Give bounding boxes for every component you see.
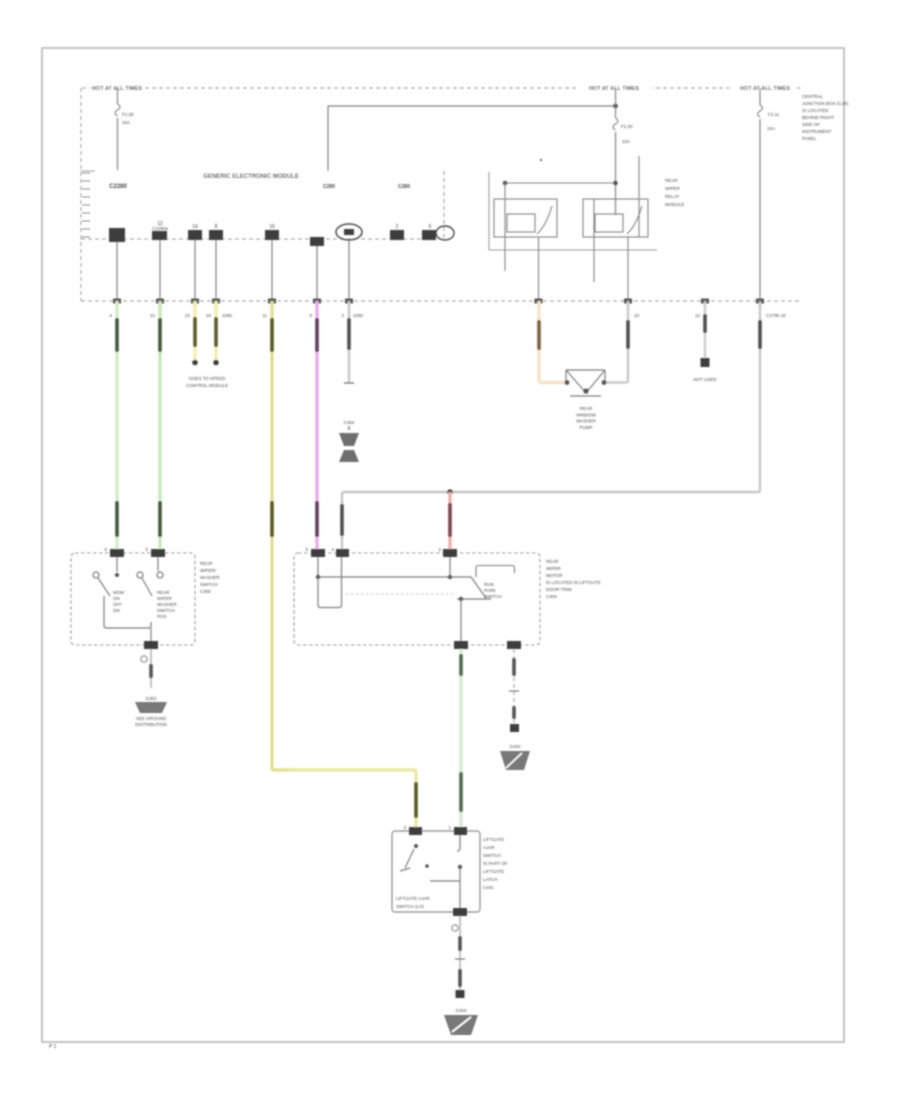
wire GEM output to relay (horizontal) <box>328 105 615 107</box>
liftgate pin out <box>453 908 467 916</box>
svg-text:WIPER: WIPER <box>157 596 173 601</box>
rear wiper washer switch box (dashed) <box>71 553 195 645</box>
svg-text:IS LOCATED: IS LOCATED <box>802 108 829 113</box>
svg-text:9: 9 <box>309 313 312 318</box>
SECTION: lower components <box>71 370 606 1035</box>
wire W10 GRAY stub not used <box>704 301 706 358</box>
wire W1 LT GREEN (wiper switch feed 1) <box>115 301 118 553</box>
svg-text:4: 4 <box>331 547 334 552</box>
ground G3 terminator <box>456 990 465 998</box>
liftgate internal bar <box>430 880 460 882</box>
wire fuse2 feed <box>615 88 617 118</box>
svg-text:SWITCH: SWITCH <box>157 608 175 613</box>
relay name label <box>665 178 684 207</box>
svg-text:F2.30: F2.30 <box>621 124 633 129</box>
svg-text:WIPER: WIPER <box>665 186 681 191</box>
battery junction box note text <box>802 94 849 141</box>
node park output <box>459 597 463 601</box>
svg-text:DISTRIBUTION: DISTRIBUTION <box>135 722 167 727</box>
switch 2 arm <box>142 578 152 596</box>
switch box pin out <box>144 641 158 649</box>
node splice dot W4 <box>213 360 219 366</box>
wire GEM pin5 to bus <box>271 240 273 301</box>
node switch1 contact <box>115 573 119 577</box>
liftgate pin B <box>448 825 467 835</box>
svg-text:SEE GROUND: SEE GROUND <box>136 716 167 721</box>
svg-text:1: 1 <box>448 825 451 830</box>
svg-text:C2280a: C2280a <box>152 226 168 231</box>
wire W11 fuse3 run down and across <box>342 301 760 553</box>
switch name label <box>200 561 220 594</box>
svg-text:HOT AT ALL TIMES: HOT AT ALL TIMES <box>589 86 639 92</box>
svg-text:RELAY: RELAY <box>665 194 679 199</box>
motor winding loop <box>318 577 342 608</box>
svg-text:POS: POS <box>157 614 167 619</box>
svg-text:WASHER: WASHER <box>200 575 220 580</box>
GEM pin 3 <box>188 224 202 240</box>
svg-text:2280: 2280 <box>222 313 233 318</box>
svg-text:MOTOR: MOTOR <box>546 573 563 578</box>
svg-text:BEHIND RIGHT: BEHIND RIGHT <box>802 115 835 120</box>
wire W6 MAGENTA (wiper motor feed) <box>315 301 318 553</box>
wire GEM output up <box>327 106 329 171</box>
svg-text:GENERIC ELECTRONIC MODULE: GENERIC ELECTRONIC MODULE <box>203 174 299 180</box>
SECTION: buses <box>81 221 802 831</box>
wiper motor pin B <box>331 547 349 557</box>
switch link to ground pin <box>150 628 152 641</box>
wiper motor pin A <box>305 547 325 557</box>
wire GEM pin4 to bus <box>215 240 217 301</box>
svg-text:WASHER: WASHER <box>157 602 177 607</box>
svg-text:MODULE: MODULE <box>665 202 684 207</box>
svg-text:10A: 10A <box>122 120 130 125</box>
svg-text:C280: C280 <box>398 184 410 190</box>
relay K2 (rear wiper park relay) <box>583 199 648 237</box>
svg-text:ON: ON <box>113 608 120 613</box>
svg-text:SWITCH: SWITCH <box>200 582 218 587</box>
relay K2 pin 594 <box>593 199 595 282</box>
GEM pin 2 with label <box>152 221 168 240</box>
wire W3 YELLOW stub <box>193 301 196 360</box>
svg-text:GOES TO SPEED: GOES TO SPEED <box>189 376 227 381</box>
svg-text:NOT USED: NOT USED <box>693 377 717 382</box>
relay K1 switch pin <box>538 237 540 301</box>
svg-text:REAR: REAR <box>157 590 170 595</box>
svg-text:10: 10 <box>634 313 640 318</box>
bus pin labels <box>109 313 786 318</box>
GEM pin 4 <box>209 224 223 240</box>
switch 1 pivot <box>93 572 99 578</box>
liftgate green feed <box>457 835 460 851</box>
svg-text:SWITCH: SWITCH <box>484 594 502 599</box>
motor M1 rear washer pump <box>566 370 605 396</box>
node junction fuse2/GEM <box>613 104 618 109</box>
fuse F2 <box>613 118 618 130</box>
svg-text:C404: C404 <box>344 420 355 425</box>
wire fuse2 to relay coil <box>615 132 617 215</box>
svg-text:6: 6 <box>429 224 432 230</box>
fuse F1 <box>115 104 120 116</box>
wiper motor internal rail <box>318 576 471 578</box>
relay rail top <box>505 182 617 184</box>
svg-text:F2.28: F2.28 <box>122 112 134 117</box>
GEM pin 8 <box>390 224 404 240</box>
wire W13 GREEN (motor to liftgate switch) <box>459 649 462 831</box>
svg-text:CONTROL MODULE: CONTROL MODULE <box>186 383 228 388</box>
svg-text:14: 14 <box>192 224 198 230</box>
wire W12 LT RED (park feed) <box>448 492 451 553</box>
svg-text:16: 16 <box>269 224 275 230</box>
svg-text:DOOR TRIM: DOOR TRIM <box>546 587 572 592</box>
svg-text:SWITCH: SWITCH <box>483 853 501 858</box>
park switch contact bar <box>457 598 491 600</box>
svg-text:LIFTGATE AJAR: LIFTGATE AJAR <box>396 896 430 901</box>
connector symbol <box>339 433 359 446</box>
svg-text:SIDE OF: SIDE OF <box>802 122 820 127</box>
svg-text:2: 2 <box>438 547 441 552</box>
svg-text:JUNCTION BOX (CJB): JUNCTION BOX (CJB) <box>802 101 849 106</box>
svg-text:5: 5 <box>145 547 148 552</box>
park switch label <box>484 582 502 599</box>
switch 2 pivot <box>137 572 143 578</box>
node junction red tap <box>447 489 453 495</box>
switch 2 feed <box>157 557 159 571</box>
svg-text:2280: 2280 <box>353 313 364 318</box>
park switch arm <box>471 577 486 598</box>
node HOT AT ALL TIMES (center) <box>576 83 652 91</box>
node splice dot W3 <box>192 360 198 366</box>
node HOT AT ALL TIMES (right) <box>733 83 797 91</box>
svg-text:C270b 16: C270b 16 <box>766 313 786 318</box>
node pump right terminal <box>602 380 607 385</box>
relay K1 pin 505 <box>504 183 506 271</box>
svg-text:PARK: PARK <box>484 588 496 593</box>
node HOT AT ALL TIMES (left) <box>90 83 144 91</box>
svg-text:C305: C305 <box>200 589 211 594</box>
wire fuse1 to GEM <box>117 118 119 170</box>
switch position label 1 <box>113 590 124 613</box>
switch 2 terminal <box>157 572 163 578</box>
svg-text:IS LOCATED IN LIFTGATE: IS LOCATED IN LIFTGATE <box>546 580 601 585</box>
wire GEM pin7 to bus <box>348 240 350 301</box>
svg-text:3: 3 <box>341 313 344 318</box>
svg-text:REAR: REAR <box>665 178 678 183</box>
relay enclosure left edge <box>488 172 490 250</box>
svg-text:HOT AT ALL TIMES: HOT AT ALL TIMES <box>740 86 790 92</box>
node liftgate common <box>458 865 462 869</box>
svg-text:C2280: C2280 <box>109 184 127 190</box>
svg-text:INSTRUMENT: INSTRUMENT <box>802 129 832 134</box>
junction box dashed enclosure top edge <box>82 87 800 89</box>
svg-text:RUN: RUN <box>484 582 494 587</box>
svg-text:23: 23 <box>185 313 191 318</box>
switch box pin A <box>104 547 124 557</box>
wire W5 CHARTREUSE (washer switch to liftgate) <box>272 301 290 770</box>
wiper motor pin out1 <box>454 641 468 649</box>
wiper motor pin out2 <box>507 641 521 649</box>
svg-text:11: 11 <box>262 313 267 318</box>
svg-text:22: 22 <box>150 313 156 318</box>
wire W7 GRAY stub to connector <box>348 301 351 383</box>
relay K2 input stub <box>638 156 640 237</box>
svg-text:IS PART OF: IS PART OF <box>483 861 508 866</box>
svg-text:5: 5 <box>305 547 308 552</box>
liftgate switch contact tick <box>400 868 410 871</box>
wire GEM pin1 to bus <box>116 242 118 301</box>
liftgate pin A <box>403 825 422 835</box>
wire GEM pin3 to bus <box>194 240 196 301</box>
park linkage dashed <box>346 593 455 595</box>
relay enclosure bottom rail <box>489 249 657 251</box>
GEM name label <box>197 168 305 179</box>
svg-text:P 1: P 1 <box>49 1044 57 1050</box>
svg-text:6: 6 <box>104 547 107 552</box>
washer pump label <box>576 406 596 430</box>
wire fuse1 feed <box>117 88 119 104</box>
svg-text:REAR: REAR <box>546 559 559 564</box>
GEM pin 5 <box>265 224 279 240</box>
svg-text:8: 8 <box>348 426 351 432</box>
GEM module box (dashed, top edge invisible) <box>81 170 95 172</box>
wire park output <box>460 599 462 645</box>
SECTION: top power area placeholder <box>81 83 849 301</box>
ground wire G1 <box>150 649 152 688</box>
svg-text:C441: C441 <box>483 885 494 890</box>
switch 1 arm <box>98 578 110 596</box>
svg-text:AJAR: AJAR <box>483 845 495 850</box>
svg-text:WIPER/: WIPER/ <box>200 568 217 573</box>
svg-text:12: 12 <box>695 313 701 318</box>
switch 1 feed <box>116 557 118 572</box>
liftgate name label <box>483 837 508 890</box>
liftgate ajar switch box <box>392 831 480 912</box>
svg-text:SWITCH (LH): SWITCH (LH) <box>396 904 424 909</box>
node pump center <box>583 388 588 393</box>
harness bus dashed line <box>81 300 802 302</box>
wire GEM pin6 to bus <box>316 246 318 301</box>
relay K2 switch pin down to bus <box>627 237 629 301</box>
switch position label 2 <box>157 590 177 619</box>
park switch upper contact <box>476 566 515 578</box>
svg-text:WINDOW: WINDOW <box>576 412 596 417</box>
wire GEM pin2 to bus <box>159 240 161 301</box>
wiper motor internal feed <box>317 557 319 577</box>
bus pin marks <box>113 299 764 304</box>
svg-text:24: 24 <box>206 313 212 318</box>
svg-text:CENTRAL: CENTRAL <box>802 94 824 99</box>
svg-text:4: 4 <box>109 313 112 318</box>
svg-text:LIFTGATE: LIFTGATE <box>483 869 504 874</box>
node rail dot mid <box>448 575 452 579</box>
node pump left terminal <box>565 380 570 385</box>
ground wire G2 dashed <box>513 649 515 723</box>
liftgate alt contact <box>425 864 429 868</box>
svg-text:2: 2 <box>396 224 399 230</box>
switch box pin B <box>145 547 165 557</box>
wire W4 YELLOW stub <box>214 301 217 360</box>
svg-text:ON: ON <box>113 596 120 601</box>
liftgate internal down <box>459 867 461 912</box>
wire W2 LT GREEN (wiper switch feed 2) <box>158 301 161 553</box>
svg-text:WIPER: WIPER <box>546 566 562 571</box>
wire fuse3 feed <box>759 88 761 105</box>
svg-text:C280: C280 <box>323 184 335 190</box>
rear wiper motor box (dashed) <box>294 553 540 645</box>
svg-text:LIFTGATE: LIFTGATE <box>483 837 504 842</box>
node junction rail left <box>503 181 508 186</box>
GEM pin 7 oval connector <box>336 224 362 240</box>
svg-text:LATCH: LATCH <box>483 877 497 882</box>
wiper motor name label <box>546 559 601 599</box>
svg-text:REAR: REAR <box>580 406 593 411</box>
junction box dashed enclosure left edge <box>80 88 82 301</box>
wiper motor internal return <box>341 557 343 591</box>
svg-text:G302: G302 <box>145 696 157 701</box>
svg-text:15A: 15A <box>622 139 630 144</box>
wire W9 GRAY (washer pump return) <box>605 301 628 383</box>
svg-text:3: 3 <box>403 825 406 830</box>
svg-text:PANEL: PANEL <box>802 136 817 141</box>
node junction rail right <box>613 181 618 186</box>
stray dot <box>540 159 542 161</box>
ground wire G3 <box>459 916 461 990</box>
relay K1 (rear wiper run relay) <box>494 199 557 237</box>
svg-text:MOM: MOM <box>113 590 124 595</box>
liftgate switch arm <box>405 849 414 868</box>
wire fuse3 down to bus <box>759 119 761 301</box>
liftgate switch pivot <box>414 844 418 848</box>
svg-text:G404: G404 <box>455 1008 467 1013</box>
wire W8 ORANGE (washer pump feed) <box>539 301 566 383</box>
fuse F3 <box>758 105 763 117</box>
svg-text:REAR: REAR <box>200 561 213 566</box>
svg-text:F2.11: F2.11 <box>768 112 780 117</box>
GEM pin 6 below line <box>310 237 324 246</box>
svg-text:15A: 15A <box>767 126 775 131</box>
svg-text:OFF: OFF <box>113 602 122 607</box>
svg-text:PUMP: PUMP <box>579 425 592 430</box>
GEM pin 1 <box>109 228 125 242</box>
switch common link <box>104 596 151 628</box>
svg-text:C404: C404 <box>546 594 557 599</box>
svg-text:WASHER: WASHER <box>576 419 596 424</box>
node rail dot left <box>316 575 320 579</box>
GEM left edge pin stubs <box>82 173 90 237</box>
red pin drop <box>449 557 451 577</box>
GEM pin 9 with oval <box>422 224 454 240</box>
wiper motor pin C <box>438 547 457 557</box>
ground G2 terminator <box>510 724 519 732</box>
svg-text:8: 8 <box>215 224 218 230</box>
svg-text:G402: G402 <box>509 744 521 749</box>
